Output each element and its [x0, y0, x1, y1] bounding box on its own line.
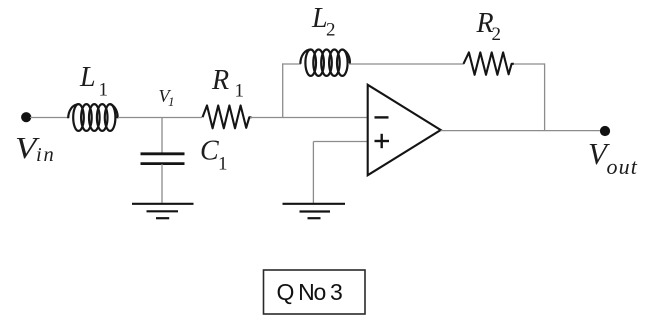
svg-text:Q No 3: Q No 3 — [276, 279, 342, 305]
wire non-inverting input down to ground — [312, 142, 314, 205]
label L1 — [79, 62, 108, 101]
wire op-amp non-inverting input — [313, 141, 367, 143]
svg-text:1: 1 — [235, 81, 245, 102]
label Vout — [588, 136, 638, 179]
wire feedback right leg down to output — [544, 63, 546, 130]
node V1 label — [159, 86, 175, 109]
wire node V1 down to C1 — [161, 118, 163, 154]
wire Vin to L1 — [30, 117, 69, 119]
wire corner to L2 — [282, 63, 301, 65]
capacitor C1 — [141, 154, 185, 164]
resistor R1 — [203, 106, 252, 129]
inductor L1 — [68, 104, 117, 131]
svg-text:L: L — [79, 62, 96, 93]
Q No 3 title box — [264, 270, 366, 314]
wire R1 to op-amp inverting input — [250, 117, 368, 119]
svg-text:2: 2 — [326, 20, 336, 41]
node Vout terminal dot — [600, 126, 610, 136]
ground (below C1) — [132, 204, 194, 218]
svg-text:1: 1 — [218, 154, 228, 175]
svg-text:in: in — [36, 144, 56, 166]
wire C1 to ground — [161, 164, 163, 204]
label Vin — [15, 132, 56, 166]
svg-text:C: C — [200, 136, 219, 167]
wire feedback left leg up to L2 — [282, 63, 284, 117]
label L2 — [311, 3, 336, 41]
op-amp inverting pin minus sign — [375, 116, 389, 118]
svg-text:R: R — [211, 65, 229, 96]
label R2 — [476, 8, 502, 45]
resistor R2 — [464, 52, 515, 74]
label R1 — [211, 65, 244, 102]
node Vin terminal dot — [21, 112, 31, 122]
wire L1 to node V1 to R1 — [118, 117, 202, 119]
wire R2 to corner — [514, 63, 545, 65]
op-amp U1 triangle — [368, 85, 441, 175]
wire L2 to R2 — [348, 63, 464, 65]
svg-text:1: 1 — [99, 80, 109, 101]
inductor L2 — [300, 50, 349, 76]
svg-text:1: 1 — [168, 94, 175, 109]
svg-text:out: out — [607, 154, 638, 179]
op-amp non-inverting pin plus sign — [375, 134, 390, 148]
svg-text:2: 2 — [492, 24, 502, 45]
ground (below op-amp + input) — [283, 204, 346, 218]
label C1 — [200, 136, 228, 175]
wire op-amp output to Vout — [441, 130, 604, 132]
